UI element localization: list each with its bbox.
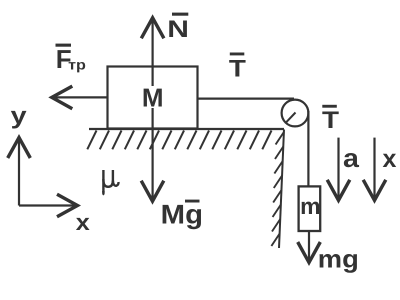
friction force arrowhead <box>52 86 73 109</box>
svg-text:m: m <box>300 193 320 219</box>
svg-text:тр: тр <box>68 56 86 72</box>
pulley circle <box>282 100 309 127</box>
acceleration a arrowhead <box>327 180 350 201</box>
x axis arrowhead <box>57 194 78 217</box>
y axis arrowhead <box>8 138 31 159</box>
table edge wall <box>279 130 284 249</box>
rope horizontal segment <box>198 97 295 99</box>
y axis shaft <box>18 140 20 206</box>
svg-text:mg: mg <box>318 246 359 274</box>
svg-text:x: x <box>76 209 90 235</box>
force mg arrowhead <box>298 242 321 263</box>
force Mg arrowhead <box>141 181 164 202</box>
acceleration a arrow shaft <box>337 138 339 198</box>
wall hatching <box>271 132 284 246</box>
svg-text:M: M <box>142 83 164 113</box>
rope vertical segment <box>307 111 309 186</box>
x axis shaft <box>19 204 74 206</box>
friction force arrow shaft <box>55 96 107 98</box>
block M rectangle <box>108 67 198 129</box>
svg-text:Mg: Mg <box>161 200 203 230</box>
pulley spoke <box>285 113 295 124</box>
svg-text:T: T <box>322 107 339 134</box>
ground hatching <box>87 131 271 150</box>
svg-text:x: x <box>383 145 397 173</box>
x direction arrowhead <box>363 180 386 201</box>
x direction arrow shaft <box>373 138 375 198</box>
svg-text:y: y <box>11 102 28 129</box>
svg-text:a: a <box>343 143 359 173</box>
force N arrowhead <box>141 18 164 39</box>
label mu (friction coefficient) <box>103 170 118 192</box>
ground line (table surface) <box>89 128 284 130</box>
hanging mass box <box>299 186 321 231</box>
svg-text:T: T <box>229 56 246 83</box>
central vertical line (N and Mg shafts) <box>152 21 154 199</box>
force mg arrow shaft <box>308 232 310 260</box>
svg-text:N: N <box>167 16 189 43</box>
white gap behind M label <box>141 86 164 108</box>
